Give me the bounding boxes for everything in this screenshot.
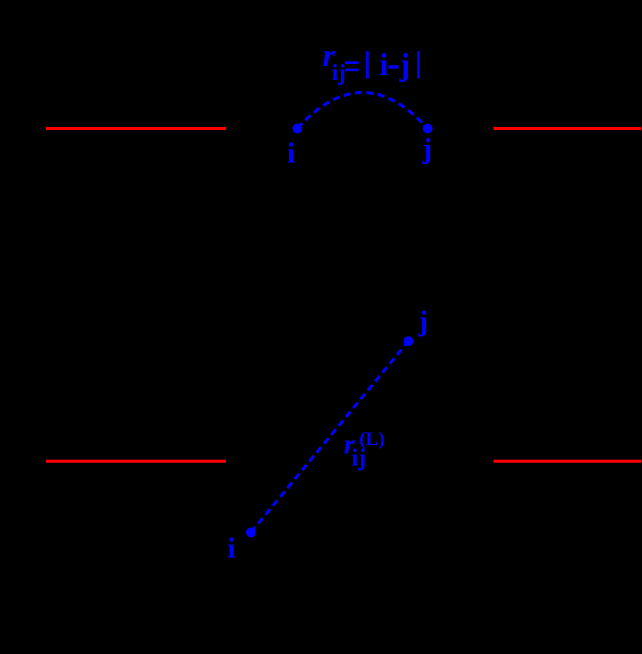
label minus sign in formula xyxy=(389,65,399,68)
node i (top chain site) xyxy=(292,124,302,134)
wire: top chain left segment xyxy=(46,127,226,130)
svg-text:j: j xyxy=(399,46,411,82)
node j (top chain site) xyxy=(423,124,433,134)
wire: top chain right segment xyxy=(494,127,642,130)
svg-text:i: i xyxy=(287,137,295,169)
svg-text:ij: ij xyxy=(332,60,346,85)
label right absolute-value bar xyxy=(417,51,420,78)
svg-text:j: j xyxy=(418,306,429,338)
wire: dashed diagonal distance r_ij^(L) between i and j xyxy=(251,341,409,532)
svg-text:i: i xyxy=(380,46,389,82)
label left absolute-value bar xyxy=(366,51,369,78)
label = sign (two bars) xyxy=(345,61,359,71)
wire: bottom chain right segment xyxy=(494,460,642,463)
wire: dashed arc distance r_ij between i and j xyxy=(297,93,427,129)
node i (bottom lattice site) xyxy=(246,528,256,538)
svg-text:j: j xyxy=(422,133,433,165)
svg-text:(L): (L) xyxy=(359,429,384,450)
wire: bottom chain left segment xyxy=(46,460,226,463)
svg-text:i: i xyxy=(228,532,236,564)
node j (bottom lattice site) xyxy=(404,336,414,346)
